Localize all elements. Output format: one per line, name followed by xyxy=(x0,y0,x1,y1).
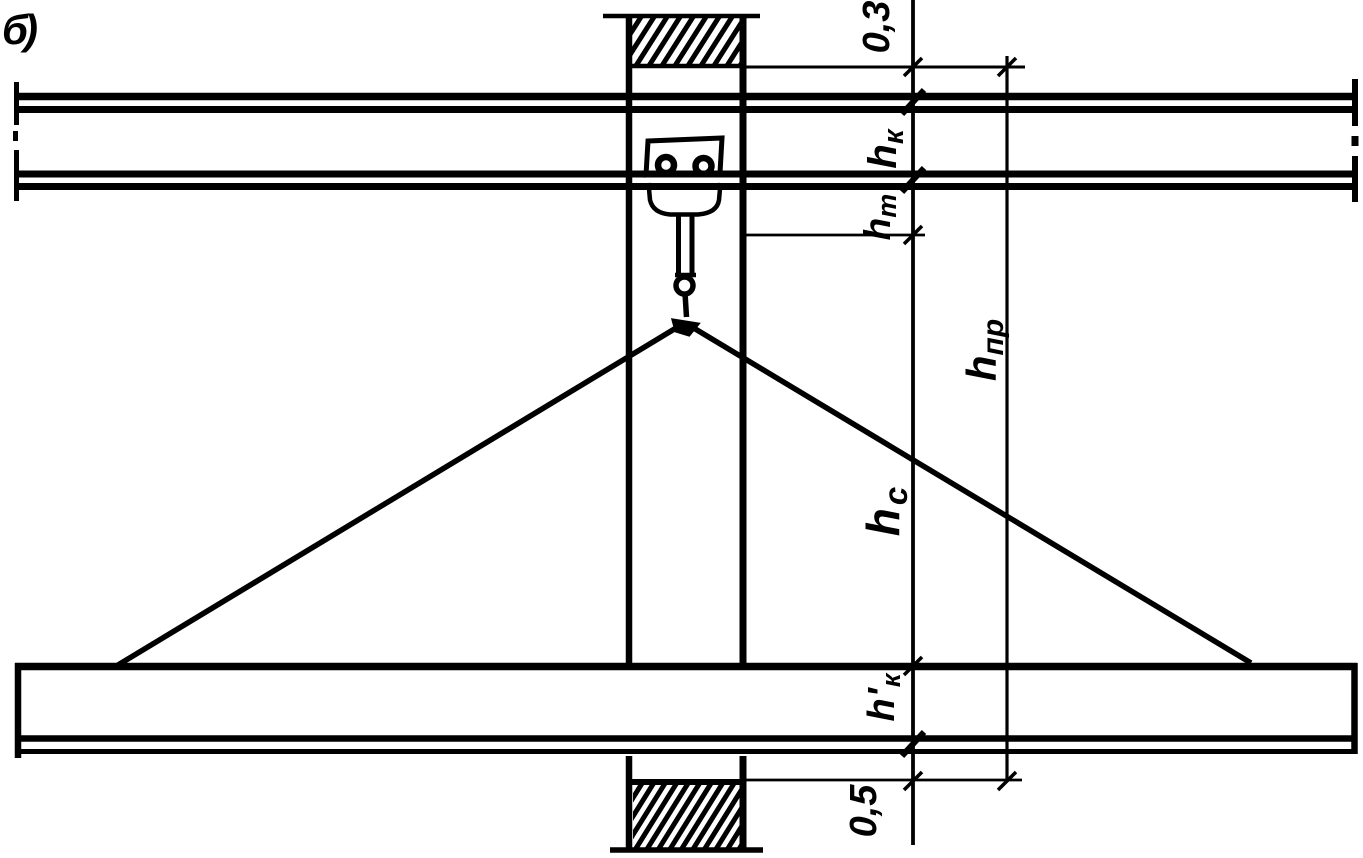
svg-text:0,3: 0,3 xyxy=(856,1,898,54)
svg-text:0,5: 0,5 xyxy=(843,784,885,838)
girder top line xyxy=(15,663,1357,671)
beam B1 left end tick xyxy=(14,82,19,125)
sling left leg xyxy=(118,325,681,665)
crane beam B2 bottom chord xyxy=(15,183,1357,190)
sling apex knot xyxy=(673,320,698,335)
tick D1 beam2 xyxy=(902,168,924,192)
crane beam B1 top chord xyxy=(15,93,1357,101)
trolley wheel left xyxy=(658,157,674,173)
beam B2 left end tick xyxy=(14,150,19,201)
floor hatch block xyxy=(587,777,785,854)
tick D1 girder bottom xyxy=(902,732,924,756)
tick D2 y781 xyxy=(998,772,1016,790)
tick D1 y781 xyxy=(904,772,922,790)
trolley lower bowl xyxy=(649,183,721,215)
hook shank crossbar xyxy=(675,273,696,278)
hook shank left line xyxy=(676,214,681,273)
axis dash right xyxy=(1352,136,1359,146)
hoist trolley body xyxy=(646,138,722,175)
tick D1 beam1 xyxy=(902,90,924,114)
tick D2 y67 xyxy=(998,58,1016,76)
roof hatch block xyxy=(580,6,778,72)
hook stem xyxy=(685,293,687,317)
roof hatch bottom edge xyxy=(630,64,742,69)
column right line lower xyxy=(740,756,747,849)
girder bottom line 2 xyxy=(19,749,1357,754)
trolley wheel right xyxy=(696,158,712,174)
hook shank right line xyxy=(690,214,695,273)
column left line lower xyxy=(626,756,633,849)
roof slab top line xyxy=(603,14,760,19)
girder bottom line 1 xyxy=(17,735,1356,742)
extension line 0,5 level xyxy=(742,779,1022,782)
extension line hook level xyxy=(744,234,925,237)
svg-text:б): б) xyxy=(2,6,37,53)
dimension line D2 xyxy=(1005,56,1008,781)
tick D1 y235 xyxy=(904,226,922,244)
crane beam B1 bottom chord xyxy=(15,106,1357,113)
girder left end xyxy=(15,663,22,758)
column right line upper xyxy=(740,14,747,667)
dimension line D1 xyxy=(911,0,915,845)
tick D1 y67 xyxy=(904,58,922,76)
floor hatch top edge xyxy=(629,779,745,785)
sling right leg xyxy=(692,327,1251,663)
extension line top 0,3 xyxy=(742,66,1025,69)
hook eye circle xyxy=(676,277,693,294)
girder right end xyxy=(1351,663,1358,754)
tick D1 girder top xyxy=(904,657,922,675)
beam B2 right end tick xyxy=(1352,156,1358,202)
floor base line xyxy=(610,847,763,853)
axis dash left xyxy=(13,131,18,141)
column left line upper xyxy=(626,14,633,667)
crane beam B2 top chord xyxy=(15,171,1357,178)
beam B1 right end tick xyxy=(1352,79,1358,126)
